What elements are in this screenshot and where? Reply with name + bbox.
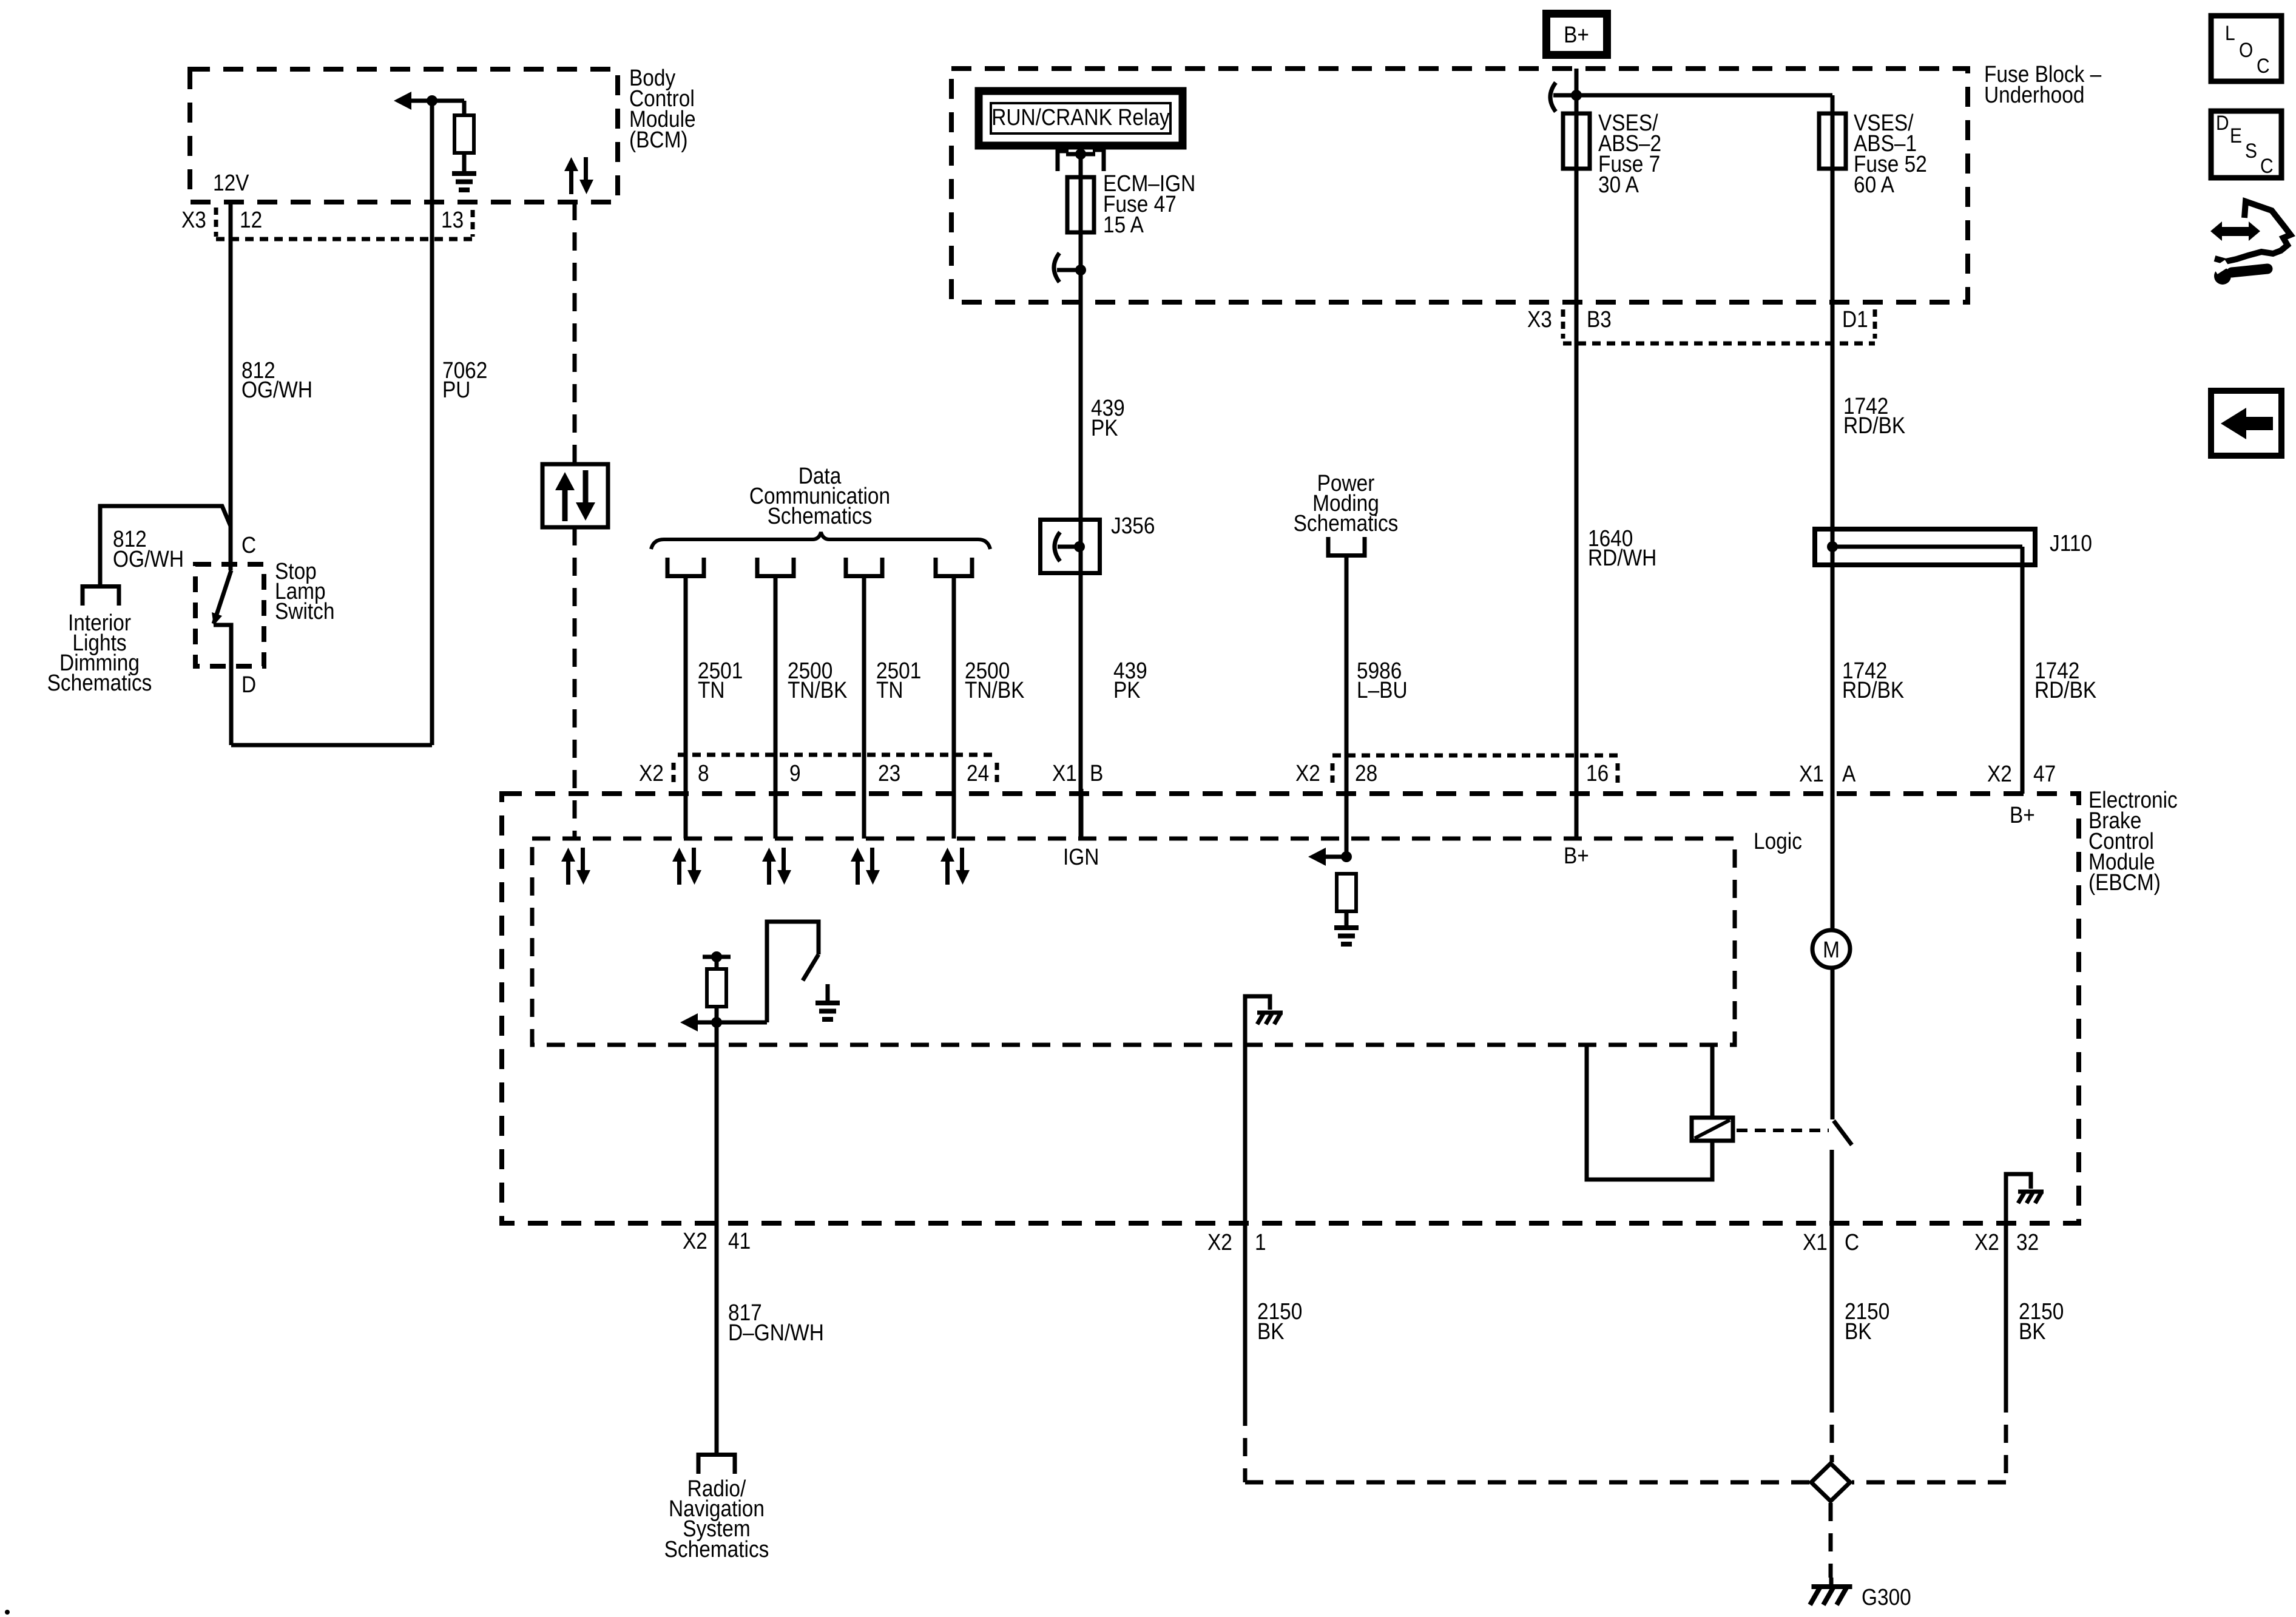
svg-text:RD/BK: RD/BK <box>1843 413 1905 438</box>
resistor: BCM pull-up <box>454 115 474 153</box>
svg-text:TN: TN <box>698 677 725 703</box>
relay coil loop wiring <box>1587 1045 1712 1180</box>
label: B+ (pin 47) <box>2010 802 2035 828</box>
connector X3 dotted outline <box>216 237 473 241</box>
icon: LOC reference box <box>2211 16 2281 81</box>
label: 7062 PU <box>442 357 487 402</box>
wire 439 PK to pin B <box>1079 789 1084 839</box>
svg-text:X2: X2 <box>1987 761 2012 786</box>
svg-text:23: 23 <box>878 760 900 786</box>
svg-text:Schematics: Schematics <box>1294 510 1399 536</box>
label: 2501 TN (pin 23) <box>876 658 921 703</box>
svg-text:RD/BK: RD/BK <box>1842 677 1904 703</box>
label: 1742 RD/BK (above J110) <box>1843 393 1905 438</box>
connector dotted outline (fuse block bottom) <box>1563 342 1875 346</box>
svg-text:B+: B+ <box>2010 802 2035 828</box>
node: X2-41 junction <box>711 1017 722 1028</box>
label: 2150 BK (middle) <box>1845 1298 1889 1344</box>
svg-text:41: 41 <box>728 1228 751 1254</box>
svg-text:32: 32 <box>2016 1229 2039 1255</box>
label: Power Moding Schematics <box>1294 470 1399 536</box>
label: J356 <box>1111 513 1155 538</box>
svg-text:PK: PK <box>1091 415 1118 441</box>
svg-text:X3: X3 <box>1527 306 1552 332</box>
pin C label <box>1845 1229 1859 1255</box>
label: Interior Lights Dimming Schematics <box>47 610 152 695</box>
arrow pair: serial data (dashed link) <box>561 848 590 885</box>
svg-text:1: 1 <box>1255 1229 1266 1255</box>
arrow pair: pin 23 <box>851 848 880 885</box>
svg-text:13: 13 <box>441 207 464 232</box>
label: Fuse Block - Underhood <box>1984 61 2101 107</box>
connector: data wire 1 to schematics <box>667 558 704 576</box>
arrow: BCM internal left arrow <box>394 92 432 110</box>
connector tick 28-left <box>1331 763 1335 788</box>
svg-text:BK: BK <box>2019 1318 2046 1344</box>
svg-text:B+: B+ <box>1564 843 1589 868</box>
pin 41 label <box>728 1228 751 1254</box>
mechanical link (dashed) relay to switch <box>1737 1129 1829 1132</box>
label: 1742 RD/BK (right) <box>2034 658 2096 703</box>
label: 1742 RD/BK (left) <box>1842 658 1904 703</box>
label: B+ (pin 16) <box>1564 843 1589 868</box>
svg-text:RD/WH: RD/WH <box>1588 545 1656 570</box>
pin B label <box>1090 760 1103 786</box>
resistor: 5986 pull-up in logic <box>1337 874 1356 911</box>
arrow pair: pin 9 <box>762 848 791 885</box>
connector: data wire 2 to schematics <box>757 558 794 576</box>
svg-text:12V: 12V <box>213 170 249 195</box>
label: 439 PK (upper) <box>1091 395 1125 441</box>
wire: BCM branch to resistor <box>432 101 464 115</box>
resistor: brake signal (logic, X2-41) top tee <box>703 951 731 969</box>
pin D label <box>241 672 256 697</box>
connector X2 label (41) <box>683 1228 707 1254</box>
pin 24 label <box>967 760 989 786</box>
label: Electronic Brake Control Module (EBCM) <box>2088 787 2178 895</box>
connector X2 label (1) <box>1207 1229 1232 1255</box>
wire 7062 from BCM pin 13 <box>430 101 434 745</box>
svg-text:X1: X1 <box>1803 1229 1828 1255</box>
svg-text:60 A: 60 A <box>1854 172 1894 197</box>
fuse F47: ECM-IGN <box>1067 177 1094 232</box>
arrow pair: pin 8 <box>672 848 701 885</box>
pin 13 label <box>441 207 464 232</box>
svg-text:RD/BK: RD/BK <box>2034 677 2096 703</box>
svg-text:BK: BK <box>1845 1318 1872 1344</box>
switch: Stop Lamp Switch dashed box <box>195 564 264 666</box>
svg-text:30 A: 30 A <box>1598 172 1639 197</box>
wire 5986 L-BU <box>1345 556 1349 857</box>
svg-text:C: C <box>1845 1229 1859 1255</box>
connector X1 label (pin B) <box>1052 760 1077 786</box>
wire: resistor to ground (5986) <box>1345 911 1349 927</box>
node: J110 junction dot <box>1827 541 1838 552</box>
wire: chassis ground leg X2-32 <box>2006 1174 2031 1394</box>
pin 16 label <box>1586 760 1609 786</box>
relay output terminal brackets <box>1058 150 1104 171</box>
svg-text:Schematics: Schematics <box>47 670 152 695</box>
wire: bus bar B+ horizontal <box>1553 93 1832 98</box>
svg-text:J110: J110 <box>2050 530 2092 556</box>
wire 1640 fuse7 to pin16 <box>1575 95 1579 839</box>
svg-text:RUN/CRANK Relay: RUN/CRANK Relay <box>991 104 1170 130</box>
pin B3 label <box>1587 306 1612 332</box>
connector X2 label (28) <box>1295 760 1320 786</box>
icon: back arrow box <box>2211 391 2281 456</box>
wire (dashed): 2150 BK left to splice <box>1245 1408 1809 1482</box>
bus bar inside J110 <box>1832 545 2022 549</box>
splice pack J110 <box>1815 529 2035 565</box>
svg-text:24: 24 <box>967 760 989 786</box>
svg-text:X2: X2 <box>683 1228 707 1254</box>
wire 2501 (pin 8) <box>684 576 688 839</box>
svg-text:X1: X1 <box>1052 760 1077 786</box>
switch blade: stop lamp switch <box>212 570 231 626</box>
svg-text:(EBCM): (EBCM) <box>2088 869 2161 895</box>
svg-text:O: O <box>2239 38 2253 61</box>
node: relay output junction <box>1075 149 1086 160</box>
svg-text:D1: D1 <box>1842 306 1868 332</box>
svg-text:12: 12 <box>240 207 262 232</box>
pin 8 label <box>698 760 709 786</box>
wire: B+ into fuse block <box>1575 69 1579 95</box>
svg-text:OG/WH: OG/WH <box>241 377 312 402</box>
label: Logic <box>1754 828 1802 854</box>
wire (dashed): serial data link lower <box>573 527 577 839</box>
wire 2500 (pin 9) <box>774 576 778 839</box>
wire: switch D leg <box>214 625 231 745</box>
connector X2 label (data) <box>639 760 664 786</box>
svg-text:TN/BK: TN/BK <box>788 677 848 703</box>
svg-text:Logic: Logic <box>1754 828 1802 854</box>
svg-text:BK: BK <box>1257 1318 1285 1344</box>
connector tick data-right <box>995 763 999 787</box>
label: 1640 RD/WH <box>1588 525 1656 570</box>
label: 2501 TN (pin 8) <box>698 658 743 703</box>
bus tap hook in J356 <box>1055 532 1060 561</box>
svg-text:D: D <box>2216 111 2229 134</box>
label: 12V <box>213 170 249 195</box>
bus tap hook at B+ <box>1550 83 1556 112</box>
label: G300 <box>1862 1584 1911 1610</box>
fuse F52: VSES/ABS-1 <box>1819 113 1846 169</box>
node: J356 junction dot <box>1074 541 1085 552</box>
svg-text:C: C <box>2257 54 2270 77</box>
wire: bottom return 812-7062 loop <box>231 743 432 748</box>
pin D1 label <box>1842 306 1868 332</box>
label: RUN/CRANK Relay <box>991 104 1170 130</box>
brace over data communication wires <box>651 532 990 549</box>
svg-text:J356: J356 <box>1111 513 1155 538</box>
svg-text:E: E <box>2230 124 2242 147</box>
wire (dashed): splice to G300 <box>1831 1503 1831 1587</box>
ground: chassis ground in logic <box>1257 1013 1283 1024</box>
connector tick fuse-block left <box>1561 309 1565 339</box>
svg-text:S: S <box>2245 139 2257 162</box>
svg-text:D: D <box>241 672 256 697</box>
label: 2150 BK (left) <box>1257 1298 1302 1344</box>
connector X2 label (32) <box>1974 1229 1999 1255</box>
svg-text:TN/BK: TN/BK <box>965 677 1025 703</box>
pin 47 label <box>2033 761 2056 786</box>
logic box (dashed) inside EBCM <box>532 839 1735 1045</box>
ground G300: chassis ground <box>1810 1587 1852 1605</box>
wire 1742 fuse52 down to J110 <box>1831 169 1835 928</box>
svg-text:B+: B+ <box>1564 22 1589 47</box>
connector tick data-left <box>672 763 676 787</box>
relay box: RUN/CRANK Relay <box>979 91 1183 146</box>
pin 23 label <box>878 760 900 786</box>
wire 2501 (pin 23) <box>862 576 866 839</box>
module box: Body Control Module (BCM) <box>190 69 618 202</box>
wire: logic chassis ground leg (X2-1) <box>1245 996 1270 1408</box>
power symbol: B+ feed box <box>1547 14 1607 55</box>
svg-text:PK: PK <box>1113 677 1141 703</box>
svg-text:A: A <box>1842 761 1855 786</box>
connector X3 label (fuse block) <box>1527 306 1552 332</box>
wire (dashed): 2150 BK middle to splice <box>1830 1394 1834 1462</box>
pin 1 label <box>1255 1229 1266 1255</box>
svg-text:Schematics: Schematics <box>664 1536 769 1562</box>
splice: ground splice diamond <box>1811 1463 1850 1501</box>
arrow: logic output to 5986 <box>1308 848 1346 866</box>
wire: resistor to ground <box>462 153 467 172</box>
label: Radio/Navigation System Schematics <box>664 1476 769 1562</box>
wire 1742 to motor switch <box>1831 970 1835 1119</box>
svg-text:X1: X1 <box>1799 761 1824 786</box>
arrow pair: BCM serial data (inside BCM) <box>564 157 593 194</box>
svg-text:D–GN/WH: D–GN/WH <box>728 1320 824 1345</box>
connector: to power moding schematics <box>1328 537 1365 556</box>
svg-text:9: 9 <box>789 760 801 786</box>
relay coil: pump motor relay <box>1692 1118 1733 1141</box>
svg-text:C: C <box>241 532 256 558</box>
pin A label <box>1842 761 1855 786</box>
pin 28 label <box>1355 760 1377 786</box>
wire: relay to fuse 47 <box>1079 154 1083 240</box>
connector tick X3-left <box>214 208 218 237</box>
wire: J356 tap <box>1058 545 1079 549</box>
pin C label <box>241 532 256 558</box>
switch blade: motor switch <box>1834 1121 1852 1145</box>
label: ECM-IGN Fuse 47 15 A <box>1103 170 1195 237</box>
wire: motor switch to X1-C <box>1830 1150 1834 1394</box>
wire 1742 branch from J110 <box>2021 547 2025 794</box>
label: 812 OG/WH (upper) <box>241 357 312 402</box>
pin 32 label <box>2016 1229 2039 1255</box>
connector: to interior lights schematics <box>83 587 119 606</box>
label: 817 D-GN/WH <box>728 1300 824 1345</box>
connector X2 label (pin 47) <box>1987 761 2012 786</box>
svg-text:IGN: IGN <box>1063 844 1099 869</box>
svg-text:Switch: Switch <box>275 598 334 624</box>
arrow: logic output to X2-41 <box>680 1013 767 1031</box>
wire: resistor bottom to junction <box>715 1007 719 1022</box>
wire (dashed): BCM serial data link upper <box>573 202 577 464</box>
symbol: boxed serial-data arrows <box>542 464 608 527</box>
ground: logic ground (5986) <box>1334 928 1359 944</box>
svg-text:X2: X2 <box>1207 1229 1232 1255</box>
label: Body Control Module (BCM) <box>629 65 696 152</box>
svg-text:TN: TN <box>876 677 903 703</box>
pin 9 label <box>789 760 801 786</box>
svg-text:X3: X3 <box>181 207 206 232</box>
motor M: ABS pump motor <box>1812 930 1850 968</box>
stray period bottom left <box>5 1610 10 1615</box>
connector tick 16-right <box>1616 763 1620 788</box>
svg-text:L–BU: L–BU <box>1357 677 1408 703</box>
svg-text:47: 47 <box>2033 761 2056 786</box>
node: tap junction on 439 <box>1075 265 1086 275</box>
node: 5986 junction <box>1341 851 1352 862</box>
connector dotted outline (X2 28-16) <box>1332 754 1618 758</box>
svg-text:X2: X2 <box>1295 760 1320 786</box>
ground: BCM signal ground <box>452 174 476 190</box>
svg-text:8: 8 <box>698 760 709 786</box>
module box: Electronic Brake Control Module (EBCM) <box>502 794 2079 1223</box>
icon: DESC reference box <box>2211 111 2281 178</box>
label: J110 <box>2050 530 2092 556</box>
svg-text:M: M <box>1823 937 1840 962</box>
wire: tap to 439 wire <box>1057 268 1081 272</box>
svg-text:28: 28 <box>1355 760 1377 786</box>
wire 812 from BCM pin 12 <box>229 202 233 570</box>
svg-text:OG/WH: OG/WH <box>113 546 184 572</box>
connector X3 label <box>181 207 206 232</box>
node: B+ bus junction <box>1571 90 1582 101</box>
node: BCM junction dot <box>427 95 437 106</box>
resistor: logic resistor X2-41 <box>707 969 726 1007</box>
svg-text:C: C <box>2260 154 2274 177</box>
label: IGN <box>1063 844 1099 869</box>
wire 817 inside EBCM <box>715 1022 719 1453</box>
svg-text:Schematics: Schematics <box>768 503 873 528</box>
icon: diagnostic tool (arrow, connector outline, wrench) <box>2210 201 2291 285</box>
label: VSES/ABS-1 Fuse 52 60 A <box>1854 110 1927 197</box>
svg-text:15 A: 15 A <box>1103 212 1144 237</box>
connector X1 label (pin A) <box>1799 761 1824 786</box>
ground: chassis ground X2-32 <box>2018 1192 2044 1203</box>
module box: Fuse Block - Underhood <box>951 69 1968 302</box>
wire: branch to interior lights <box>100 506 231 584</box>
connector tick X3-right <box>471 210 475 237</box>
wire: fuse 47 down <box>1079 232 1083 839</box>
svg-text:X2: X2 <box>639 760 664 786</box>
connector: data wire 3 to schematics <box>846 558 882 576</box>
label: 2150 BK (right) <box>2019 1298 2064 1344</box>
label: Stop Lamp Switch <box>275 558 334 624</box>
svg-text:L: L <box>2225 21 2235 44</box>
pin 12 label <box>240 207 262 232</box>
svg-text:B: B <box>1090 760 1103 786</box>
svg-text:(BCM): (BCM) <box>629 127 688 152</box>
svg-text:16: 16 <box>1586 760 1609 786</box>
connector X1 label (C) <box>1803 1229 1828 1255</box>
connector: to radio navigation schematics <box>698 1455 735 1474</box>
arrow pair: pin 24 <box>940 848 970 885</box>
connector tick fuse-block right <box>1873 309 1877 339</box>
label: 2500 TN/BK (pin 9) <box>788 658 848 703</box>
svg-text:G300: G300 <box>1862 1584 1911 1610</box>
wire 2500 (pin 24) <box>952 576 956 839</box>
label: 812 OG/WH (branch) <box>113 526 184 572</box>
connector: data wire 4 to schematics <box>936 558 972 576</box>
label: Data Communication Schematics <box>749 463 890 528</box>
ground: logic switch ground <box>815 984 840 1019</box>
bus tap hook below fuse 47 <box>1054 253 1059 282</box>
switch: logic switch to ground <box>767 922 819 1022</box>
fuse F7: VSES/ABS-2 <box>1563 113 1590 169</box>
connector dotted outline (data comm X2) <box>678 753 997 757</box>
label: VSES/ABS-2 Fuse 7 30 A <box>1598 110 1661 197</box>
svg-text:PU: PU <box>442 377 470 402</box>
wire (dashed): 2150 BK right to splice <box>1852 1394 2006 1482</box>
svg-text:B3: B3 <box>1587 306 1612 332</box>
svg-text:X2: X2 <box>1974 1229 1999 1255</box>
splice J356 box <box>1041 520 1100 573</box>
wire: bus to fuse 52 <box>1831 95 1835 170</box>
label: 5986 L-BU <box>1357 658 1408 703</box>
label: 439 PK (lower) <box>1113 658 1147 703</box>
svg-text:Underhood: Underhood <box>1984 82 2084 107</box>
label: 2500 TN/BK (pin 24) <box>965 658 1025 703</box>
